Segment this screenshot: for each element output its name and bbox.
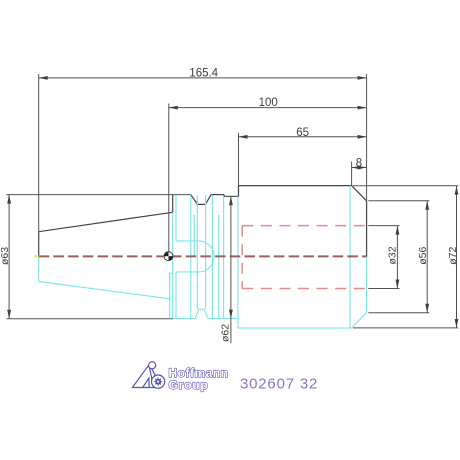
- dim 8 extension line: [351, 162, 353, 186]
- cyan body bottom edge: [238, 327, 351, 329]
- cyan nut groove verticals: [190, 195, 192, 318]
- logo triangle: [132, 362, 164, 389]
- svg-text:165.4: 165.4: [189, 67, 218, 79]
- cyan nut left verticals: [169, 273, 171, 319]
- svg-text:ø72: ø72: [447, 246, 459, 264]
- gauge ball: [164, 252, 173, 261]
- dim dia56 line: [426, 201, 428, 313]
- dim dia32 line: [396, 226, 398, 289]
- dim 165.4 line: [39, 77, 367, 79]
- cyan notch bottom: [195, 309, 208, 318]
- svg-text:ø56: ø56: [417, 246, 429, 264]
- svg-text:ø63: ø63: [0, 247, 11, 265]
- dim 8 line: [352, 167, 367, 169]
- dim 100 line: [169, 107, 367, 109]
- cyan neck right face: [237, 196, 239, 328]
- dia63 extension top: [7, 194, 191, 196]
- svg-text:302607 32: 302607 32: [240, 376, 318, 393]
- dim dia63 line: [8, 195, 10, 319]
- cyan chamfer bottom: [351, 313, 366, 328]
- notch top: [191, 195, 211, 205]
- cone taper top: [39, 212, 173, 231]
- logo head circle: [149, 362, 156, 369]
- logo inner triangle: [143, 378, 150, 387]
- red centerline: [39, 255, 367, 257]
- svg-text:100: 100: [259, 97, 278, 109]
- cyan cone taper bottom: [39, 282, 170, 299]
- dim dia72 line: [456, 186, 458, 328]
- extension line x168.8: [168, 104, 170, 252]
- dia63 extension bottom: [7, 318, 174, 320]
- logo gear star: [154, 377, 163, 386]
- svg-text:65: 65: [296, 127, 309, 139]
- red hidden bore top: [242, 225, 366, 227]
- red hidden bore left: [241, 226, 243, 289]
- chamfer top: [352, 186, 367, 201]
- dim dia62 line: [230, 196, 232, 343]
- svg-text:ø32: ø32: [387, 246, 399, 264]
- cyan left face bottom: [38, 257, 40, 282]
- svg-text:8: 8: [356, 157, 362, 169]
- cyan groove line with D-slot break: [175, 195, 177, 241]
- svg-text:ø62: ø62: [220, 324, 232, 342]
- extension line left x39: [38, 74, 40, 232]
- step nut to neck: [224, 186, 238, 197]
- logo gear outer: [152, 375, 165, 388]
- extension line x238.5: [238, 133, 240, 186]
- logo arm line: [152, 369, 155, 375]
- svg-text:Group: Group: [169, 378, 209, 392]
- extension line right x366.6: [366, 74, 368, 201]
- cyan nut bottom edge: [173, 318, 196, 320]
- collet front face: [172, 195, 174, 213]
- body top edge: [239, 185, 352, 187]
- cyan flange left face: [349, 186, 351, 328]
- body outline top: nut top right segment: [211, 194, 224, 196]
- left face top half: [38, 232, 40, 257]
- yellow centerline start tick: [34, 255, 38, 257]
- cyan D-slot: [176, 241, 214, 272]
- red hidden bore bottom: [242, 288, 366, 290]
- right extension lines: [353, 185, 458, 187]
- right face top half: [366, 201, 368, 257]
- cyan right face bottom half: [366, 257, 368, 313]
- dim 65 line: [239, 136, 367, 138]
